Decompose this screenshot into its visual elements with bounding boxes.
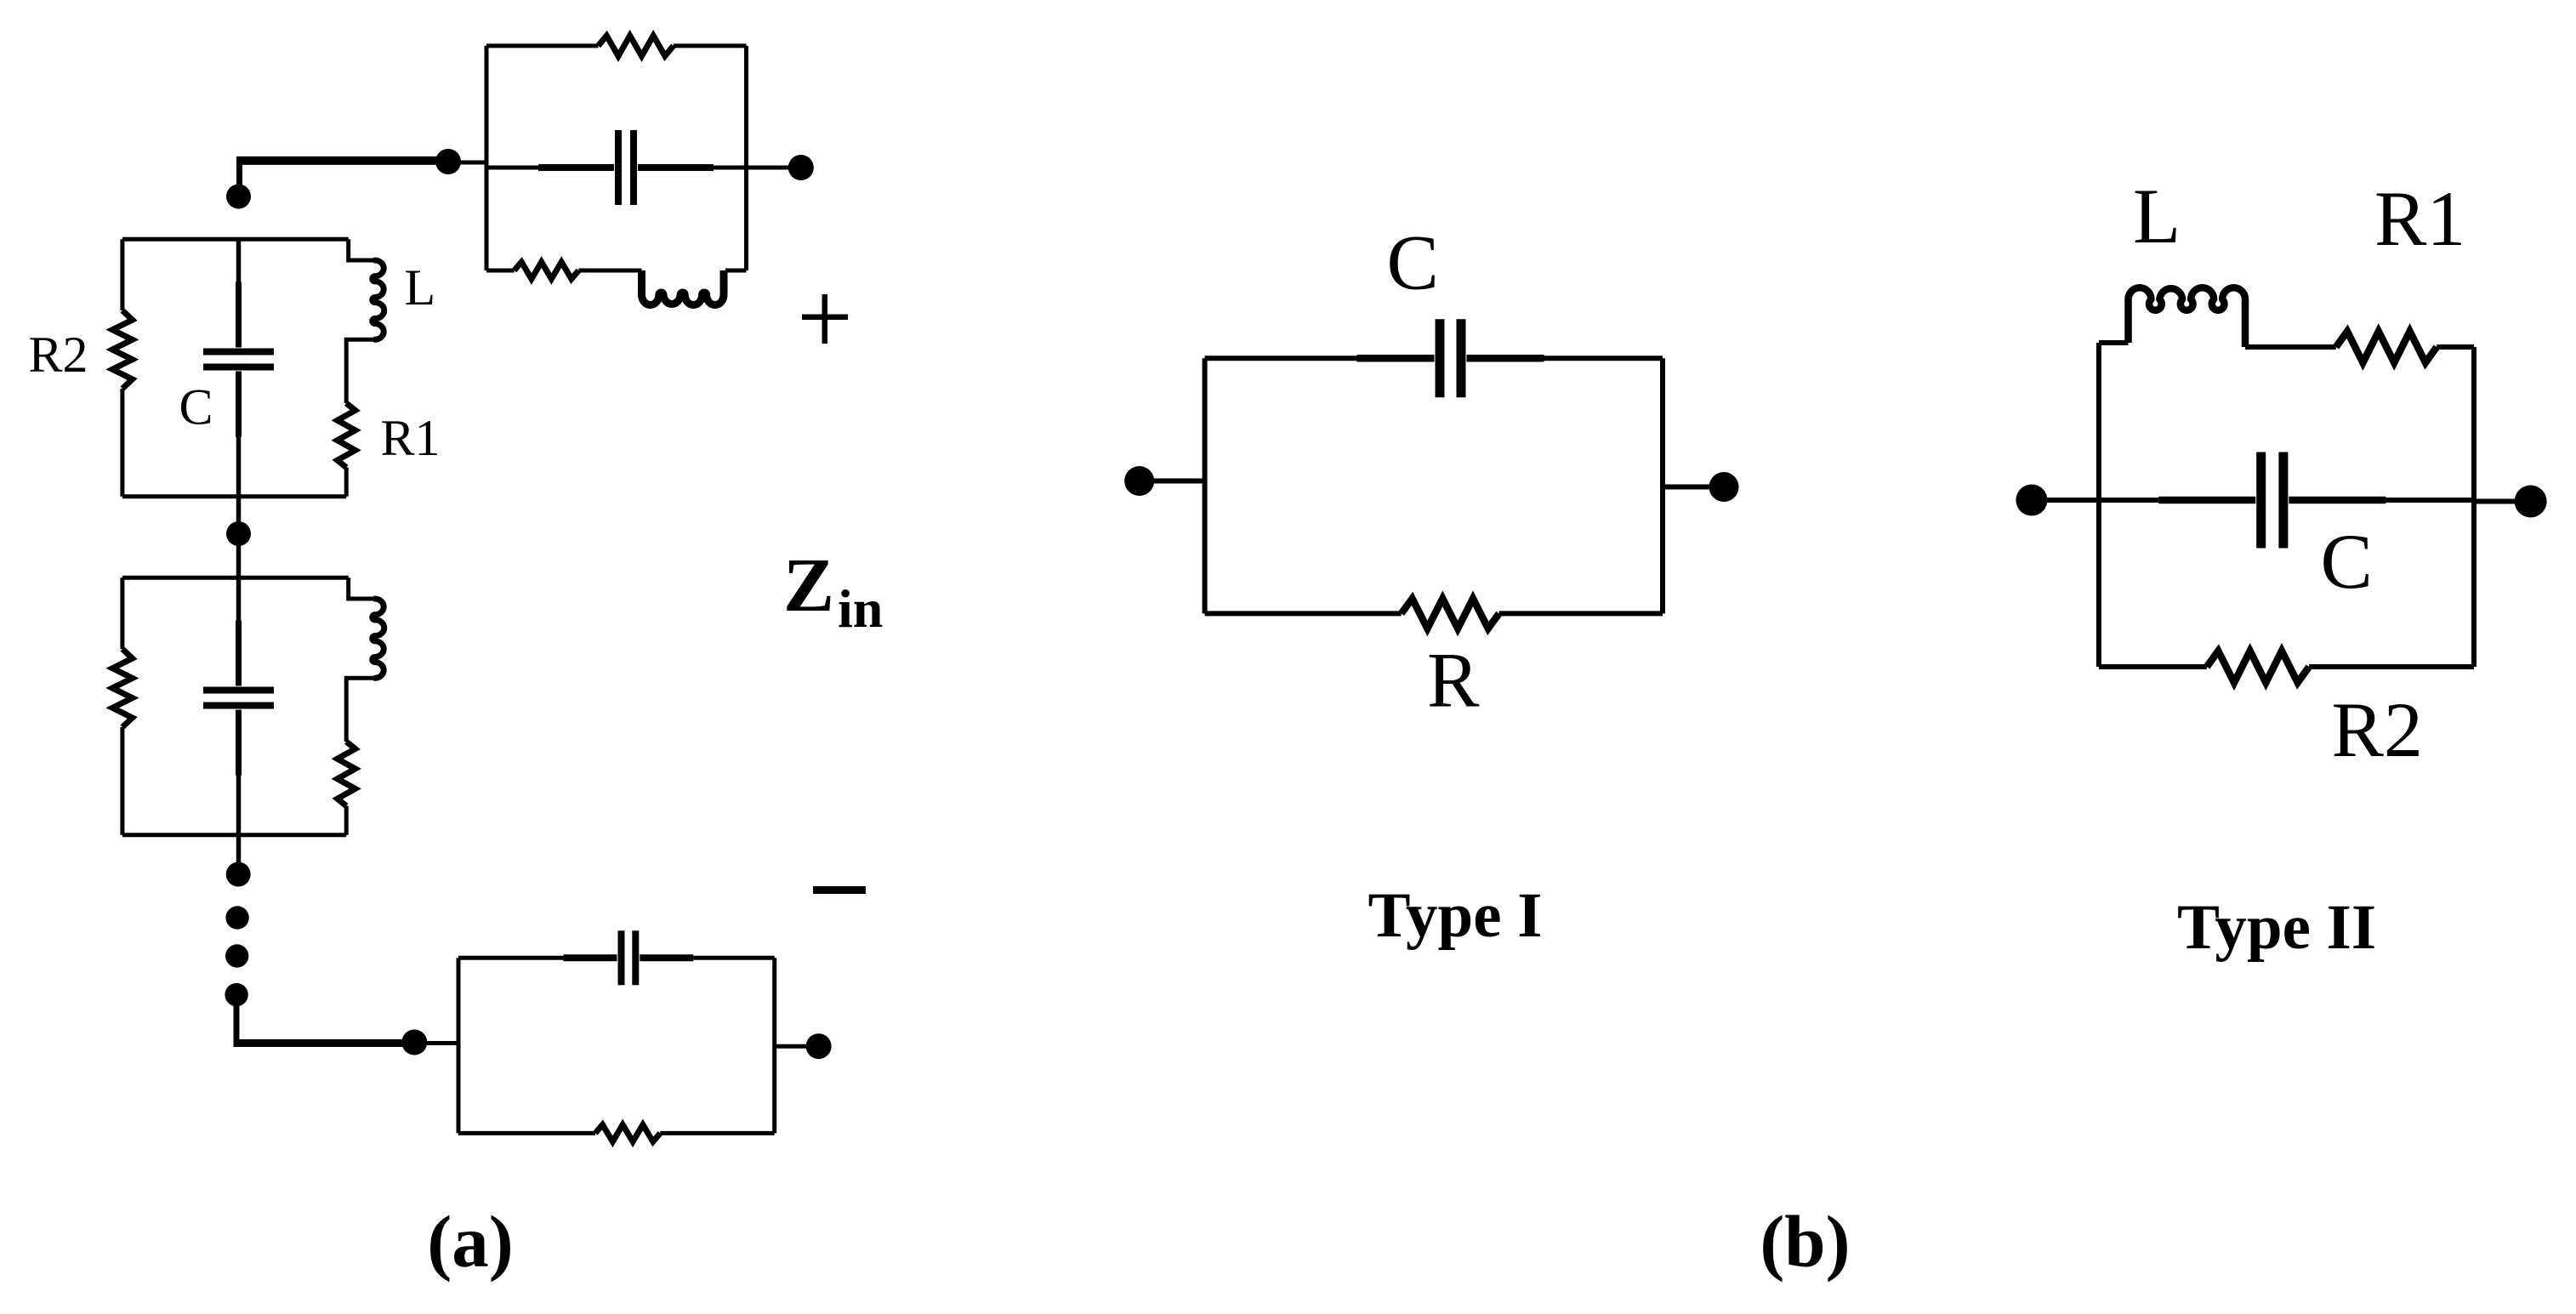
capacitor (block Z1 middle branch) xyxy=(486,130,747,205)
wire: Type I bottom-left segment xyxy=(1205,611,1402,616)
resistor R1 (Type II top branch) xyxy=(2336,332,2437,363)
wire: block ZN right edge xyxy=(772,958,776,1133)
resistor R1 (cell right branch) xyxy=(338,403,355,468)
label: L (Type II) xyxy=(2133,173,2181,259)
wire: cell box left upper xyxy=(120,239,124,310)
label: C xyxy=(179,378,213,435)
wire: input from + terminal to ladder top xyxy=(236,156,448,198)
label: Type I xyxy=(1368,880,1543,951)
label: R1 (Type II) xyxy=(2374,175,2465,262)
wire: R1 to cell box bottom xyxy=(344,468,349,497)
inductor L (Type II top branch) xyxy=(2129,287,2246,347)
ellipsis dot 2 xyxy=(225,944,248,967)
resistor R2 (cell shunt) xyxy=(112,649,132,727)
wire: R1 to cell box bottom xyxy=(344,806,349,835)
wire: Type II box right edge xyxy=(2471,347,2476,667)
node: Type II left terminal xyxy=(2016,485,2047,516)
wire: Type I left terminal to box xyxy=(1153,479,1205,484)
label: R (Type I) xyxy=(1427,637,1480,724)
wire: backbone between cells xyxy=(236,497,242,578)
ellipsis dot 3 xyxy=(225,983,247,1006)
wire: junction to block Z1 xyxy=(448,161,486,165)
wire: inductor to R1 xyxy=(346,678,375,742)
wire: cell box top xyxy=(122,237,349,242)
svg-text:(a): (a) xyxy=(427,1200,513,1283)
wire: Type II box left edge xyxy=(2096,343,2101,667)
wire: Type II left terminal wire xyxy=(2046,498,2099,503)
node: - terminal dot xyxy=(806,1033,832,1059)
capacitor C (Type II middle branch) xyxy=(2099,452,2474,549)
wire: block ZN bottom-left segment xyxy=(458,1131,595,1135)
svg-text:C: C xyxy=(1387,219,1439,306)
wire: block ZN to - terminal xyxy=(775,1044,819,1049)
wire: block ZN bottom-right segment xyxy=(660,1131,774,1135)
capacitor (block ZN top branch) xyxy=(458,930,775,985)
wire: Type II inductor to R1 xyxy=(2245,344,2336,350)
svg-text:R2: R2 xyxy=(2332,686,2423,773)
label: Z_in xyxy=(783,543,883,639)
svg-text:Type I: Type I xyxy=(1368,880,1543,951)
wire: cell box bottom xyxy=(122,833,346,837)
wire: inductor to block Z1 right edge xyxy=(725,269,747,273)
node: Type I right terminal xyxy=(1709,472,1739,502)
wire: cell box left lower xyxy=(120,389,124,497)
wire: block ZN left edge xyxy=(457,958,461,1133)
node: junction below cell 2 xyxy=(226,862,251,887)
label: L xyxy=(405,259,436,316)
wire: Type II bottom-left segment xyxy=(2099,664,2207,669)
label: - sign xyxy=(813,886,866,894)
inductor (block Z1 bottom branch) xyxy=(642,270,725,305)
capacitor C (cell middle) xyxy=(203,239,274,496)
resistor R2 (Type II bottom branch) xyxy=(2207,651,2309,682)
node: ladder top junction xyxy=(226,185,251,209)
wire: cell box bottom xyxy=(122,494,346,498)
wire: Type I box to right terminal xyxy=(1663,485,1709,490)
capacitor C (cell middle) xyxy=(203,577,274,834)
resistor R (Type I bottom branch) xyxy=(1402,599,1499,629)
resistor R2 (cell shunt) xyxy=(112,310,132,389)
svg-text:C: C xyxy=(2321,518,2373,605)
wire: cell top-right jog xyxy=(349,577,375,599)
wire: cell box top xyxy=(122,576,349,580)
svg-text:in: in xyxy=(838,578,883,639)
wire: block Z1 top-left segment xyxy=(486,43,598,48)
wire: Type II box to right terminal xyxy=(2474,499,2516,504)
wire: block Z1 right edge xyxy=(744,46,748,270)
wire: backbone below cell 2 xyxy=(236,835,242,874)
svg-text:R2: R2 xyxy=(29,327,88,383)
wire: block Z1 bottom-left segment xyxy=(486,269,515,273)
wire: junction to block ZN xyxy=(414,1041,458,1045)
wire: input from - terminal to ladder bottom xyxy=(234,997,415,1046)
label: Type II xyxy=(2177,892,2376,963)
resistor (block ZN bottom branch) xyxy=(595,1124,660,1141)
label: R1 xyxy=(381,410,441,466)
inductor L (cell right branch) xyxy=(372,260,384,339)
wire: block Z1 left edge xyxy=(485,46,489,270)
wire: Type II bottom-right segment xyxy=(2309,664,2474,669)
wire: Type I bottom-right segment xyxy=(1499,611,1663,616)
label: R2 xyxy=(29,327,88,383)
ellipsis dot 1 xyxy=(225,906,248,929)
resistor R1 (cell right branch) xyxy=(338,742,355,806)
wire: Type II top-right segment xyxy=(2437,344,2474,350)
label: (b) xyxy=(1760,1200,1850,1283)
node: junction at block ZN input xyxy=(401,1030,427,1055)
svg-text:R: R xyxy=(1427,637,1480,724)
svg-text:R1: R1 xyxy=(381,410,441,466)
inductor L (cell right branch) xyxy=(372,599,384,678)
wire: Type II top-left segment xyxy=(2099,340,2129,345)
resistor (block Z1 bottom branch) xyxy=(515,262,579,279)
label: C (Type I) xyxy=(1387,219,1439,306)
label: + sign xyxy=(802,294,848,344)
wire: resistor to inductor (block Z1 bottom) xyxy=(578,269,641,273)
node: junction at block Z1 input xyxy=(435,149,461,174)
capacitor C (Type I top branch) xyxy=(1205,319,1663,397)
wire: block Z1 top-right segment xyxy=(674,43,747,48)
node: + terminal dot xyxy=(788,155,814,180)
svg-text:Type II: Type II xyxy=(2177,892,2376,963)
wire: cell box left lower xyxy=(120,727,124,835)
wire: block Z1 to + terminal xyxy=(747,166,801,170)
wire: Type I box left edge xyxy=(1203,358,1208,613)
label: C (Type II) xyxy=(2321,518,2373,605)
svg-text:R1: R1 xyxy=(2374,175,2465,262)
node: Type I left terminal xyxy=(1124,466,1154,496)
wire: inductor to R1 xyxy=(346,339,375,403)
wire: cell box left upper xyxy=(120,577,124,649)
label: (a) xyxy=(427,1200,513,1283)
svg-text:L: L xyxy=(2133,173,2181,259)
resistor (block Z1 top branch) xyxy=(598,36,673,56)
node: junction between cell 1 and cell 2 xyxy=(226,521,251,546)
label: R2 (Type II) xyxy=(2332,686,2423,773)
svg-text:C: C xyxy=(179,378,213,435)
svg-text:L: L xyxy=(405,259,436,316)
wire: cell top-right jog xyxy=(349,239,375,260)
node: Type II right terminal xyxy=(2515,486,2547,518)
svg-text:Z: Z xyxy=(783,543,834,628)
wire: Type I box right edge xyxy=(1660,358,1665,613)
svg-text:(b): (b) xyxy=(1760,1200,1850,1283)
